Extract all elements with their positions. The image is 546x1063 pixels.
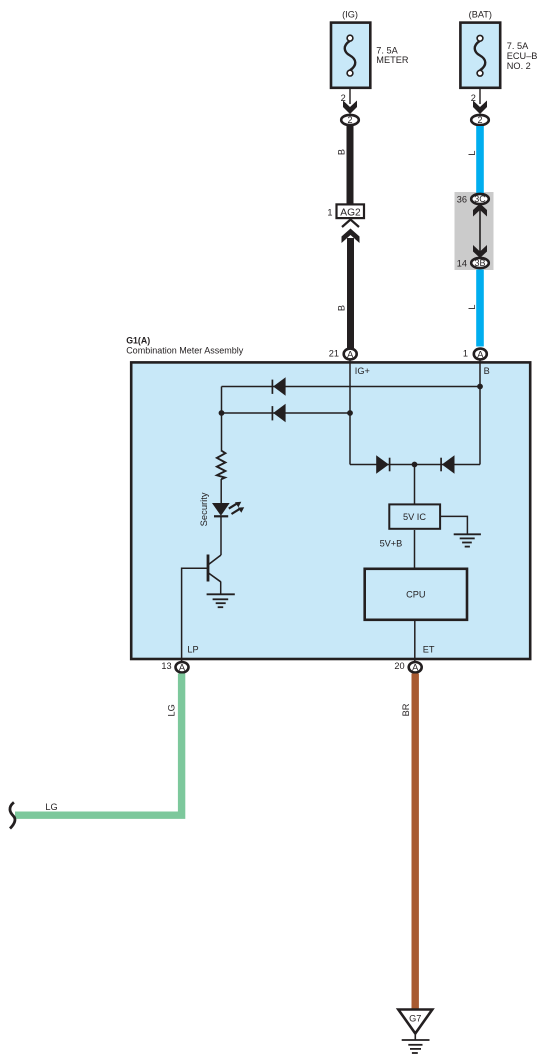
svg-text:13: 13 <box>161 661 171 671</box>
arrow up to 3C <box>473 204 487 217</box>
wire label L upper <box>467 150 477 155</box>
CPU box <box>365 569 467 620</box>
junction left second row <box>219 410 225 416</box>
ground (5V IC) <box>454 534 481 546</box>
wire second diode row <box>222 412 351 414</box>
arrow down to 3B <box>473 245 487 258</box>
node IG+ label <box>355 366 370 376</box>
svg-text:1: 1 <box>327 207 332 217</box>
svg-text:3B: 3B <box>474 258 485 268</box>
svg-text:5V IC: 5V IC <box>403 512 426 522</box>
arrow into connector (BAT) <box>473 101 487 115</box>
svg-text:B: B <box>337 305 347 311</box>
svg-text:G7: G7 <box>409 1013 421 1023</box>
junction at B / top row <box>477 384 483 390</box>
fuse (BAT) label <box>469 10 492 20</box>
svg-text:A: A <box>179 663 186 673</box>
wire B upper segment <box>347 126 354 205</box>
wire L lower segment <box>476 270 484 347</box>
page break squiggle <box>10 802 15 828</box>
transistor Q1 <box>208 555 221 582</box>
fuse F2 value label 7.5A ECU-B NO.2 <box>507 41 538 71</box>
svg-text:1: 1 <box>463 349 468 359</box>
svg-text:LP: LP <box>187 645 198 655</box>
connector oval 3C <box>457 194 489 205</box>
wire label LG horizontal <box>45 802 57 812</box>
wire emitter to ground <box>220 582 222 595</box>
svg-text:Combination Meter Assembly: Combination Meter Assembly <box>126 345 244 355</box>
shield gray box <box>455 192 494 270</box>
svg-text:LG: LG <box>45 802 57 812</box>
wire label LG vertical <box>167 704 177 716</box>
wire label L lower <box>467 304 477 309</box>
junction IG+ second row <box>347 410 353 416</box>
Security label <box>198 492 209 526</box>
wire base to LP <box>182 568 208 661</box>
node B label <box>484 366 490 376</box>
svg-text:3C: 3C <box>474 194 486 204</box>
junction line between 3C and 3B <box>479 206 481 256</box>
svg-text:A: A <box>412 663 419 673</box>
wire label B lower <box>337 305 347 311</box>
fuse F2 BAT box <box>460 23 500 88</box>
svg-text:A: A <box>347 349 354 359</box>
svg-text:L: L <box>467 150 477 155</box>
wire 5V IC to ground <box>441 516 467 533</box>
wire CPU to pin 20 <box>414 621 416 662</box>
wire bottom diode row <box>350 464 480 466</box>
pin 1 connector A <box>463 349 487 360</box>
wire label B upper <box>337 149 347 155</box>
wire top diode row <box>222 386 481 388</box>
diode D2 (second row, pointing left) <box>272 404 285 423</box>
svg-text:ECU–B: ECU–B <box>507 51 538 61</box>
wire IG+ vertical <box>349 360 351 465</box>
connector AG2 <box>337 204 365 218</box>
wire L upper segment <box>476 126 484 194</box>
wire left column down <box>221 387 223 452</box>
LED D5 Security <box>212 503 230 516</box>
fuse F1 IG box <box>331 23 370 88</box>
svg-text:14: 14 <box>457 259 467 269</box>
connector oval 2 (IG) <box>341 115 359 125</box>
pin 13 connector A <box>161 661 188 673</box>
svg-text:7. 5A: 7. 5A <box>507 41 529 51</box>
svg-text:(BAT): (BAT) <box>469 10 492 20</box>
wire B vertical <box>479 360 481 465</box>
resistor R <box>217 451 226 480</box>
svg-text:NO. 2: NO. 2 <box>507 61 531 71</box>
wire B lower segment with arrow <box>342 229 360 349</box>
svg-text:CPU: CPU <box>406 590 425 600</box>
pin 2 label (BAT) <box>471 93 476 103</box>
chevron outline below AG2 <box>342 220 359 228</box>
wire label BR <box>401 703 411 716</box>
svg-text:20: 20 <box>394 661 404 671</box>
wire to 5V IC <box>414 465 416 504</box>
svg-text:IG+: IG+ <box>355 366 370 376</box>
svg-text:ET: ET <box>423 645 435 655</box>
regulator 5V IC box <box>389 504 440 528</box>
svg-text:L: L <box>467 304 477 309</box>
wire resistor to LED <box>220 479 222 503</box>
node 5V+B label <box>380 538 403 548</box>
diode D3 (pointing right) <box>376 455 389 473</box>
wire fuse BAT to connector <box>479 88 481 104</box>
LED light arrows <box>229 502 244 514</box>
node ET label <box>423 645 435 655</box>
svg-text:A: A <box>477 349 484 359</box>
ground (transistor) <box>207 594 235 607</box>
wire G7 apex <box>414 1034 416 1040</box>
wire fuse IG to connector <box>349 88 351 104</box>
svg-text:Security: Security <box>198 492 209 526</box>
wire BR <box>412 674 419 1010</box>
junction bottom row center <box>412 462 418 468</box>
svg-text:BR: BR <box>401 703 411 716</box>
diode D4 (pointing left) <box>441 455 454 473</box>
pin 2 label (IG) <box>341 93 346 103</box>
pin 20 connector A <box>394 661 421 673</box>
label G1(A) <box>126 336 244 356</box>
connector oval 3B <box>457 258 489 269</box>
svg-text:(IG): (IG) <box>342 10 358 20</box>
wire LED to transistor <box>220 516 222 555</box>
ground G7 triangle <box>398 1010 432 1034</box>
wire 5V IC to CPU <box>414 530 416 568</box>
wire LG <box>15 674 182 816</box>
diode D1 (top row, pointing left) <box>272 377 285 396</box>
svg-text:B: B <box>484 366 490 376</box>
connector oval 2 (BAT) <box>471 115 489 125</box>
svg-text:36: 36 <box>457 195 467 205</box>
svg-text:G1(A): G1(A) <box>126 336 150 346</box>
svg-text:B: B <box>337 149 347 155</box>
arrow into connector (IG) <box>343 101 357 115</box>
svg-text:METER: METER <box>376 55 409 65</box>
box G1 <box>131 362 530 659</box>
pin 21 connector A <box>329 349 357 360</box>
svg-text:2: 2 <box>477 115 482 125</box>
svg-text:AG2: AG2 <box>340 207 361 218</box>
pin 1 label AG2 <box>327 207 332 217</box>
node LP label <box>187 645 198 655</box>
ground bars G7 <box>402 1040 430 1053</box>
fuse F1 value label 7.5A METER <box>376 46 409 65</box>
svg-text:LG: LG <box>167 704 177 716</box>
svg-text:21: 21 <box>329 349 339 359</box>
svg-text:5V+B: 5V+B <box>380 538 403 548</box>
fuse (IG) label <box>342 10 358 20</box>
svg-text:2: 2 <box>347 115 352 125</box>
